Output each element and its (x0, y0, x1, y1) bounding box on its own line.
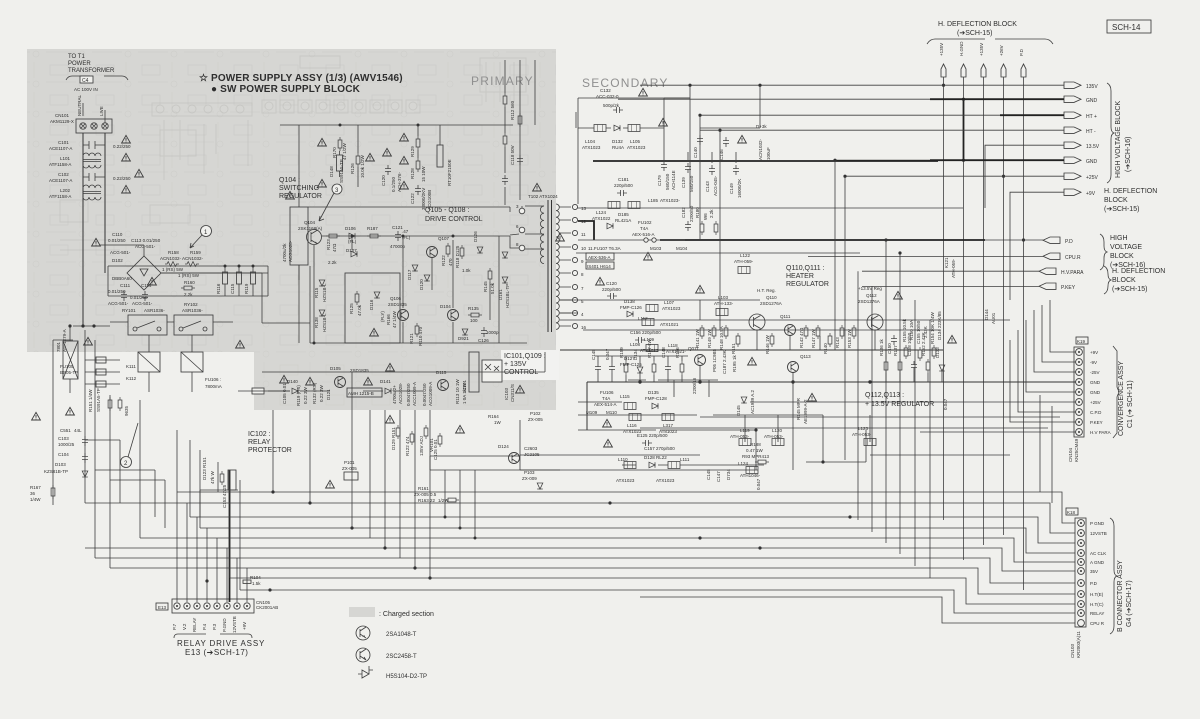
svg-text:KZS81B-TP: KZS81B-TP (44, 469, 68, 474)
svg-text:12: 12 (581, 219, 587, 224)
junction dot (821, 460, 824, 463)
svg-text:R129: R129 (410, 146, 415, 157)
svg-text:P101: P101 (344, 460, 355, 465)
svg-text:0.047: 0.047 (943, 398, 948, 410)
svg-text:R153 1W: R153 1W (847, 328, 852, 348)
resistor R140 (823, 333, 832, 354)
snubber block left (282, 125, 308, 280)
wire 135V (640, 84, 1064, 86)
svg-text:P.KEY: P.KEY (1061, 285, 1076, 291)
svg-text:C120: C120 (606, 281, 617, 286)
wire right vert b (1051, 406, 1053, 503)
svg-text:100uF: 100uF (766, 147, 771, 160)
svg-text:HIGH: HIGH (1110, 235, 1128, 242)
svg-text:1W: 1W (494, 420, 502, 425)
svg-text:R142 47Ω: R142 47Ω (799, 327, 804, 348)
svg-text:11: 11 (581, 232, 586, 237)
resistor R163 (418, 498, 459, 503)
svg-text:1000p: 1000p (486, 330, 499, 335)
svg-text:2SA1048-T: 2SA1048-T (386, 632, 417, 638)
svg-text:D115: D115 (436, 370, 447, 375)
bus wire 3 (190, 517, 1075, 543)
line filter L202 (49, 185, 101, 200)
arrow P.D (1043, 237, 1060, 243)
AMH block (347, 388, 382, 397)
svg-text:2200/50: 2200/50 (689, 205, 694, 222)
svg-text:12VSTB: 12VSTB (1090, 531, 1107, 536)
drop wire 5 (384, 410, 386, 548)
svg-text:FU106 :: FU106 : (205, 377, 221, 382)
feed P.D (1023, 77, 1025, 590)
svg-text:RU4A: RU4A (612, 145, 624, 150)
warning triangle (280, 375, 289, 383)
svg-text:135V: 135V (1086, 84, 1098, 90)
svg-text:C126: C126 (478, 338, 489, 343)
conv feed +25V (750, 401, 1076, 403)
arrow CPU.R (1043, 253, 1060, 259)
svg-text:PRIMARY: PRIMARY (471, 74, 534, 88)
CN105 pin 3 (192, 603, 200, 632)
CN105 pin 2 (182, 603, 190, 630)
svg-text:T4A: T4A (640, 226, 648, 231)
resistor R188 (742, 442, 770, 464)
connector CN101 (50, 94, 112, 133)
cap C179 (657, 161, 676, 190)
svg-text:R154 10K 1/4W: R154 10K 1/4W (930, 311, 935, 344)
svg-text:1/2W: 1/2W (438, 498, 449, 503)
svg-text:0.0047/250: 0.0047/250 (422, 383, 427, 406)
warning triangle (748, 357, 757, 365)
svg-text:0.22 3W: 0.22 3W (319, 384, 324, 402)
svg-text:H. DEFLECTION: H. DEFLECTION (1112, 268, 1165, 275)
svg-text:ACN1032- ACN1032-: ACN1032- ACN1032- (160, 256, 204, 261)
svg-text:GND: GND (1086, 159, 1098, 165)
svg-text:12VSTB: 12VSTB (232, 616, 237, 633)
svg-text:220p/500: 220p/500 (614, 183, 633, 188)
svg-text:560/150: 560/150 (665, 173, 670, 190)
svg-text:R158: R158 (168, 250, 179, 255)
choke symbols row (739, 439, 876, 446)
warning triangle (364, 377, 373, 385)
svg-text:0.22/250: 0.22/250 (113, 144, 131, 149)
svg-text:● SW POWER SUPPLY BLOCK: ● SW POWER SUPPLY BLOCK (211, 84, 361, 95)
bus wire 6 (85, 548, 1075, 571)
svg-text:ATX1023: ATX1023 (627, 145, 646, 150)
svg-text:HZS1BL-TP: HZS1BL-TP (505, 284, 510, 308)
CN104 pin 3 -25V (1076, 369, 1100, 376)
svg-text:POWER: POWER (68, 61, 91, 67)
diode D128 (644, 455, 667, 468)
svg-text:2SD1276A: 2SD1276A (858, 299, 880, 304)
wire vert x520 (519, 420, 521, 470)
transistor Q113 (788, 354, 812, 470)
svg-text:C102: C102 (58, 172, 69, 177)
svg-text:R140: R140 (823, 343, 828, 354)
diode D117 (407, 265, 418, 280)
svg-text:D120: D120 (419, 279, 424, 290)
T102 sec pin 11 (572, 230, 586, 237)
relay RY101 (122, 308, 167, 335)
junction dot (339, 124, 342, 127)
resistor R126 (350, 125, 365, 187)
resistor R118 (455, 245, 471, 273)
sec bus F (560, 319, 1010, 321)
svg-text:RELAY DRIVE ASSY: RELAY DRIVE ASSY (177, 639, 265, 648)
choke L111 (656, 457, 690, 483)
svg-text:L108: L108 (630, 342, 641, 347)
junction dot (758, 546, 761, 549)
svg-text:REGULATOR: REGULATOR (786, 281, 829, 288)
svg-text:C.P.D: C.P.D (1090, 410, 1102, 415)
wire P.D hv (795, 239, 1043, 241)
resistor R143 (835, 325, 844, 348)
cap C147 (605, 348, 615, 382)
svg-text:ATX1023: ATX1023 (616, 478, 635, 483)
top feed arrows group (939, 41, 1026, 77)
cap C153 (222, 470, 236, 508)
heater lines (560, 300, 875, 350)
svg-text:ASR1036-: ASR1036- (182, 308, 203, 313)
svg-text:R195 1k: R195 1k (732, 354, 737, 372)
CN103 pin 1 P.GND (1078, 520, 1105, 527)
svg-text:R166: R166 (386, 314, 391, 325)
svg-text:R122: R122 (441, 255, 446, 266)
cap C139 (681, 163, 694, 192)
CN105 stem pin2 (186, 503, 188, 602)
resistor R149 (707, 325, 716, 348)
resistor R123 (326, 234, 340, 252)
legend: charged section (349, 607, 434, 618)
svg-text:P.GND: P.GND (222, 618, 227, 632)
sec vertical 3 (719, 130, 721, 330)
heater band rail2 (595, 355, 688, 357)
cap C182 (681, 205, 694, 231)
svg-text:CPU.R: CPU.R (1065, 255, 1081, 261)
sec bus D (576, 252, 860, 254)
HV block brace (1107, 83, 1114, 183)
svg-text:LIVE: LIVE (99, 106, 104, 116)
svg-text:G4 (➔SCH-17): G4 (➔SCH-17) (1126, 580, 1133, 627)
conv feed -25V (1034, 310, 1076, 372)
svg-text:C153 47/25: C153 47/25 (222, 484, 227, 508)
resistor R161 (414, 486, 437, 497)
sec vertical 5 (844, 176, 846, 460)
svg-text:C115: C115 (230, 283, 235, 294)
sec wire m (575, 112, 577, 128)
mains wire N (104, 133, 106, 273)
choke L124b (592, 210, 611, 221)
svg-text:T4A: T4A (602, 396, 610, 401)
arrow 13.5V (1064, 142, 1081, 148)
diode D140 (268, 379, 330, 394)
resistor R170 (332, 137, 347, 160)
svg-text:+ 135V: + 135V (504, 361, 527, 368)
svg-text:11.FU107 T6.3A: 11.FU107 T6.3A (588, 246, 621, 251)
transistor D124 (498, 444, 540, 464)
cap C148 (661, 347, 671, 382)
svg-text:H. DEFLECTION: H. DEFLECTION (1104, 188, 1157, 195)
rotated label 0.22W (303, 386, 308, 404)
svg-text:RELAY: RELAY (192, 618, 197, 632)
conv feed +9V (1050, 300, 1076, 352)
sec bus C (660, 239, 985, 241)
P.D / CPU.R arrows to HV block (1043, 234, 1145, 270)
CN104 pin 1 +9V (1076, 349, 1099, 356)
fly frame (345, 273, 400, 343)
svg-text:C146: C146 (719, 149, 724, 160)
diode D148 (329, 151, 344, 183)
sec vertical 11 (929, 320, 931, 578)
svg-text:Q104 :: Q104 : (279, 177, 300, 184)
svg-text:35V: 35V (1090, 569, 1098, 574)
gray col cap (517, 155, 523, 165)
svg-text:47k W: 47k W (210, 470, 215, 484)
svg-text:M109: M109 (586, 410, 598, 415)
wire GND2 (930, 159, 1064, 161)
svg-text:SS91A5-TP: SS91A5-TP (96, 388, 101, 412)
svg-text:C113 0.01/250: C113 0.01/250 (131, 238, 161, 243)
sec vertical 10 (914, 300, 916, 566)
bus wire 2 (85, 503, 1075, 533)
svg-text:22: 22 (430, 498, 436, 503)
svg-text:FU106: FU106 (600, 390, 614, 395)
top rail (280, 124, 513, 126)
sec vertical 6 (857, 271, 859, 520)
arrow HT+ (1064, 112, 1081, 118)
sec top extra wires (664, 98, 760, 163)
svg-text:ATH-059-: ATH-059- (951, 258, 956, 278)
svg-text:HT +: HT + (1086, 114, 1097, 120)
CN103 pin 6 35V (1078, 568, 1098, 575)
diode D185 (607, 212, 631, 229)
resistor R137 (893, 345, 902, 382)
svg-text:ACG-045-: ACG-045- (713, 175, 718, 196)
svg-text:E13 (➔SCH-17): E13 (➔SCH-17) (185, 648, 248, 657)
svg-text:E13: E13 (158, 605, 167, 610)
svg-text:ATX1023: ATX1023 (582, 145, 601, 150)
svg-text:H.V PARA: H.V PARA (1090, 430, 1111, 435)
drop wire 6 (399, 410, 401, 558)
svg-text:PROTECTOR: PROTECTOR (248, 447, 292, 454)
left riser bus1 (217, 462, 219, 492)
sec vertical 9 (899, 253, 901, 554)
choke L105 (627, 125, 646, 151)
wire CPU.R hv (808, 255, 1043, 257)
svg-text:36: 36 (30, 491, 36, 496)
svg-text:R161: R161 (418, 486, 429, 491)
svg-text:H.V.PARA: H.V.PARA (1061, 270, 1084, 276)
rotated label g6 (462, 382, 467, 404)
svg-text:0.1/250: 0.1/250 (391, 176, 396, 192)
arrow +25V (1064, 173, 1081, 179)
svg-text:-9V: -9V (1090, 360, 1097, 365)
svg-text:AC1989 A.2: AC1989 A.2 (750, 389, 755, 414)
warning triangle (738, 135, 747, 143)
T102 sec pin 13 (572, 204, 586, 211)
svg-text:R116: R116 (216, 283, 221, 294)
svg-text:D124: D124 (498, 444, 509, 449)
svg-text:13: 13 (581, 206, 587, 211)
svg-text:L104: L104 (585, 139, 596, 144)
svg-text:10: 10 (581, 246, 587, 251)
svg-text:1 (RS) 5W: 1 (RS) 5W (162, 267, 184, 272)
svg-text:P.KEY: P.KEY (1090, 420, 1103, 425)
conv feed GND (587, 382, 1076, 430)
junction dot (698, 536, 701, 539)
svg-text:BLOCK: BLOCK (1110, 253, 1134, 260)
resistor R159 (619, 347, 628, 382)
diode D125 (645, 390, 667, 409)
warning triangle (236, 340, 245, 348)
svg-text:L110: L110 (618, 457, 628, 462)
svg-text:Q106: Q106 (390, 296, 402, 301)
svg-text:+25V: +25V (1090, 400, 1101, 405)
left stair step 3 (110, 480, 165, 528)
resistor R157 (647, 338, 656, 382)
choke L107 (646, 300, 681, 312)
svg-text:P102: P102 (530, 411, 541, 416)
sec vertical 1 (689, 85, 691, 208)
sec bus A (593, 160, 938, 162)
diode D145 (736, 397, 747, 416)
svg-text:(➔SCH-15): (➔SCH-15) (957, 30, 992, 37)
reg lines2 (578, 430, 764, 470)
svg-text:ACN1032-: ACN1032- (758, 138, 763, 160)
IC102 label lines (200, 490, 238, 517)
svg-text:R149 1W: R149 1W (707, 328, 712, 348)
RELAY DRIVE ASSY label (174, 634, 265, 657)
svg-text:C551: C551 (60, 428, 71, 433)
diode D126 (473, 231, 483, 253)
trimmer P102 (528, 411, 543, 422)
svg-text:L317: L317 (663, 423, 674, 428)
junction dot (351, 235, 354, 238)
warning triangle (122, 185, 131, 193)
dark stem (229, 470, 231, 602)
resistor R145 (483, 268, 495, 294)
riser to bottom rail (161, 266, 310, 343)
choke L114 (620, 394, 636, 410)
warning triangle (66, 407, 75, 415)
svg-text:D126: D126 (473, 231, 478, 242)
junction dot (718, 129, 721, 132)
svg-text:K18: K18 (1067, 510, 1076, 515)
junction dot (1022, 238, 1025, 241)
svg-text:C156 220p/500: C156 220p/500 (630, 330, 661, 335)
T102 primary pin 8 (510, 236, 525, 251)
svg-text:15 10W: 15 10W (421, 166, 426, 182)
rotated label R119 (296, 385, 301, 406)
resistor d123 (220, 471, 224, 485)
svg-text:2SD1835: 2SD1835 (388, 302, 407, 307)
svg-text:CN101: CN101 (55, 113, 70, 118)
svg-text:W6: W6 (703, 213, 708, 220)
svg-text:CPU R: CPU R (1090, 621, 1105, 626)
svg-text:CN104: CN104 (1068, 447, 1073, 462)
CN105 pin 6 (222, 603, 230, 632)
svg-text:C118 50V: C118 50V (510, 145, 515, 165)
svg-text:RELAY: RELAY (1090, 611, 1104, 616)
ghost connector row (152, 103, 252, 116)
svg-text:H.GND: H.GND (959, 41, 964, 56)
rotated label 0.047 (756, 478, 761, 490)
lower-left auxiliary cluster (60, 357, 137, 387)
svg-text:4700u/2k: 4700u/2k (282, 243, 287, 262)
svg-text:D106: D106 (345, 226, 356, 231)
left fuse block (56, 324, 78, 393)
svg-text:CN103: CN103 (1070, 643, 1075, 658)
choke L122 (734, 253, 754, 274)
svg-text:10.0k 1/2W: 10.0k 1/2W (360, 154, 365, 178)
svg-text:0.01/250: 0.01/250 (108, 238, 126, 243)
rotated label g5 (455, 379, 460, 404)
svg-text:C181: C181 (618, 177, 629, 182)
svg-text:L115: L115 (620, 394, 630, 399)
svg-text:D121: D121 (326, 389, 331, 400)
svg-text:AC 100V IN: AC 100V IN (74, 87, 98, 92)
bus left verticals supplement (176, 430, 178, 492)
svg-text:ACG-501-: ACG-501- (110, 250, 131, 255)
CN103 pin 10 RELAY (1078, 610, 1105, 617)
junction dot (884, 238, 887, 241)
ghost pad row 2 (262, 100, 276, 113)
svg-text:AKM1129-X: AKM1129-X (50, 119, 74, 124)
mid wires IC102 (430, 456, 560, 470)
choke L110 (616, 457, 636, 483)
sec vertical 4 (834, 160, 836, 350)
svg-text:R121: R121 (409, 333, 414, 344)
sec vertical 7 (871, 286, 873, 532)
choke L112 (638, 316, 679, 327)
svg-text:R157 1W: R157 1W (647, 338, 652, 358)
trimmer P101 (342, 460, 358, 480)
CN103 pin 2 12VSTB (1078, 530, 1107, 537)
resistor R160 (181, 280, 195, 297)
left riser bus4 (199, 450, 201, 528)
svg-text:R148 10.5A: R148 10.5A (719, 326, 724, 350)
rotated label R195 (732, 354, 737, 372)
resistor R172 (405, 431, 414, 456)
CN105 stem pin5 (216, 538, 218, 602)
svg-text:Q112: Q112 (866, 293, 877, 298)
junction dot (754, 428, 757, 431)
svg-text:DBB0A60: DBB0A60 (112, 276, 132, 281)
conv feed -9V (1042, 305, 1076, 362)
transistor Q111 (780, 314, 796, 336)
left riser bus6 (94, 340, 96, 558)
resistor R125 (349, 291, 362, 316)
cap C126 (478, 327, 499, 343)
rotated label A2 (750, 389, 755, 414)
CN104 pin 2 -9V (1076, 359, 1097, 366)
left riser bus3 (189, 440, 191, 517)
svg-text:ACG-501-: ACG-501- (132, 301, 153, 306)
block label: Q110 Q111 HEATER REGULATOR (786, 265, 829, 288)
svg-text:C147: C147 (716, 471, 721, 482)
line filter L101 (49, 153, 101, 168)
fuse FU102 (632, 220, 655, 237)
resistor R122 (441, 243, 453, 266)
svg-text:2.2k: 2.2k (709, 209, 714, 218)
svg-text:9635: 9635 (124, 405, 129, 416)
svg-text:51.0k: 51.0k (490, 282, 495, 294)
resistor R164 (488, 414, 502, 425)
svg-text:+135V: +135V (979, 43, 984, 56)
sec top extra caps (693, 135, 729, 160)
svg-text:R167: R167 (30, 485, 41, 490)
svg-text:0.047: 0.047 (605, 348, 610, 360)
feed H.GND (963, 77, 965, 560)
